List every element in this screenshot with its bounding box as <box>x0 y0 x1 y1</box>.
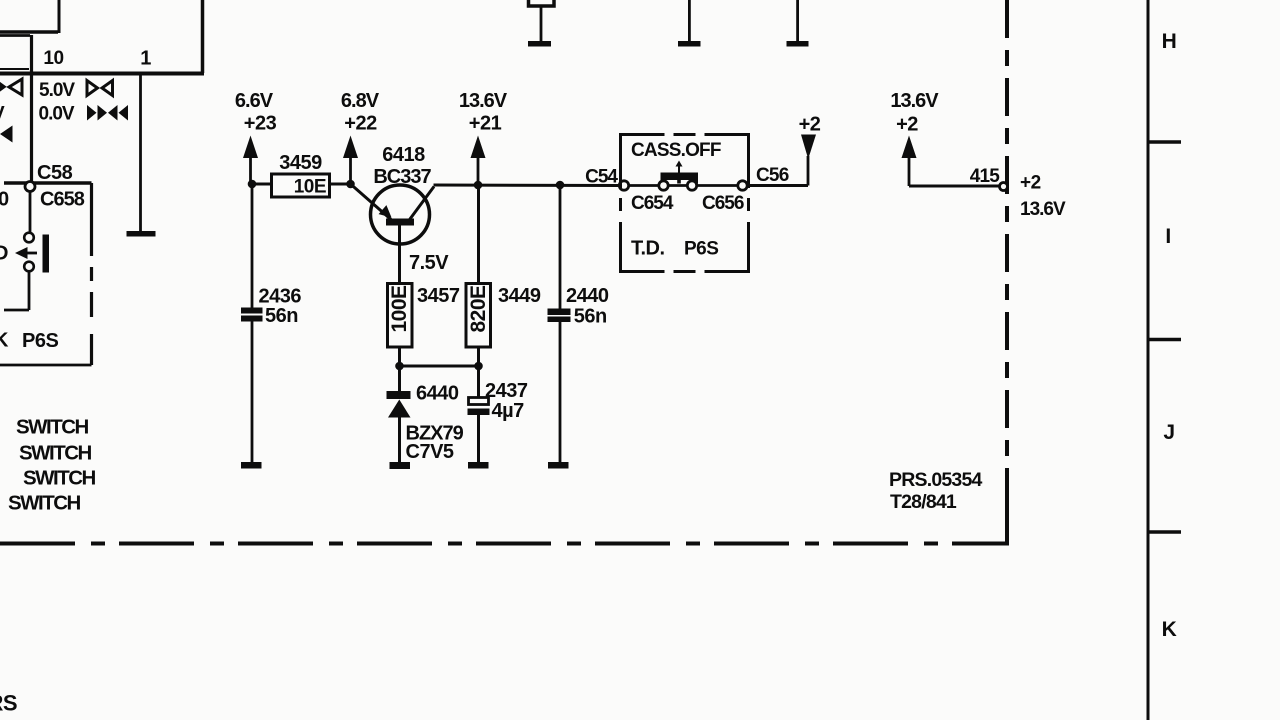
svg-text:13.6V: 13.6V <box>890 90 939 112</box>
svg-text:+2: +2 <box>1020 173 1041 194</box>
svg-text:6.8V: 6.8V <box>341 90 380 112</box>
svg-text:56n: 56n <box>265 305 298 327</box>
svg-text:P6S: P6S <box>22 330 58 352</box>
svg-text:820E: 820E <box>467 285 490 333</box>
svg-text:C7V5: C7V5 <box>406 441 454 463</box>
svg-text:+23: +23 <box>244 113 277 135</box>
svg-text:100E: 100E <box>388 285 411 333</box>
svg-text:P6S: P6S <box>684 239 718 260</box>
svg-text:2440: 2440 <box>566 285 609 307</box>
svg-text:1: 1 <box>140 48 151 70</box>
svg-text:SWITCH: SWITCH <box>19 442 92 465</box>
svg-text:T.D.: T.D. <box>631 238 665 260</box>
svg-text:SWITCH: SWITCH <box>16 416 89 439</box>
svg-text:10E: 10E <box>294 177 326 198</box>
svg-text:H: H <box>1162 30 1177 53</box>
svg-text:K: K <box>0 330 9 352</box>
svg-text:415: 415 <box>970 166 1001 187</box>
svg-text:13.6V: 13.6V <box>1020 199 1066 220</box>
svg-text:K: K <box>1162 618 1177 641</box>
svg-text:3449: 3449 <box>498 285 541 307</box>
svg-text:3459: 3459 <box>279 152 322 174</box>
svg-text:C54: C54 <box>585 167 618 188</box>
svg-text:5.0V: 5.0V <box>39 80 75 101</box>
svg-text:I: I <box>1165 225 1170 248</box>
svg-text:0: 0 <box>0 189 9 211</box>
svg-text:C658: C658 <box>40 189 85 211</box>
svg-text:6418: 6418 <box>382 144 425 166</box>
svg-text:RS: RS <box>0 691 17 716</box>
svg-text:13.6V: 13.6V <box>459 90 508 112</box>
svg-text:6440: 6440 <box>416 383 459 405</box>
svg-text:3457: 3457 <box>417 285 460 307</box>
svg-text:56n: 56n <box>574 306 607 328</box>
svg-text:10: 10 <box>43 48 63 69</box>
svg-text:7.5V: 7.5V <box>409 252 449 274</box>
svg-text:BC337: BC337 <box>373 166 431 188</box>
svg-text:SWITCH: SWITCH <box>23 467 96 490</box>
svg-text:+22: +22 <box>344 113 377 135</box>
svg-text:2437: 2437 <box>485 380 528 402</box>
svg-text:+2: +2 <box>799 114 821 136</box>
svg-text:4µ7: 4µ7 <box>492 400 525 422</box>
svg-text:T28/841: T28/841 <box>890 491 957 513</box>
svg-text:C654: C654 <box>631 193 674 214</box>
svg-text:0.0V: 0.0V <box>39 104 75 125</box>
svg-text:C656: C656 <box>702 193 744 214</box>
svg-text:6.6V: 6.6V <box>235 90 274 112</box>
svg-text:CASS.OFF: CASS.OFF <box>631 140 721 161</box>
svg-text:C58: C58 <box>37 162 73 184</box>
svg-text:PRS.05354: PRS.05354 <box>889 469 982 491</box>
svg-text:D: D <box>0 243 8 265</box>
svg-text:SWITCH: SWITCH <box>8 492 81 515</box>
svg-text:+2: +2 <box>896 114 918 136</box>
svg-text:J: J <box>1163 421 1174 444</box>
svg-text:+21: +21 <box>469 113 502 135</box>
svg-text:C56: C56 <box>756 165 789 186</box>
